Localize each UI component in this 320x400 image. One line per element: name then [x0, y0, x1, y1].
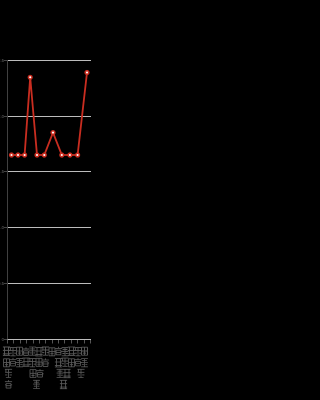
- marker point 4: [35, 153, 40, 158]
- marker point 2: [22, 153, 27, 158]
- marker point 10: [85, 70, 90, 75]
- y tick 1.5: [4, 171, 7, 173]
- marker point 3: [28, 75, 33, 80]
- svg-text:1.5: 1.5: [0, 169, 5, 174]
- x-axis ticks: [7, 340, 9, 344]
- gridline y5: [8, 283, 91, 285]
- gridline y3: [8, 171, 91, 173]
- marker point 5: [42, 153, 47, 158]
- marker point 8: [68, 153, 73, 158]
- marker point 0: [9, 153, 14, 158]
- svg-text:1.0: 1.0: [0, 225, 5, 230]
- marker point 7: [60, 153, 65, 158]
- marker point 6: [51, 130, 56, 135]
- marker point 1: [16, 153, 21, 158]
- gridline y4: [8, 227, 91, 229]
- red data line: [12, 73, 88, 156]
- y tick 2.0: [4, 116, 7, 118]
- svg-text:2.5: 2.5: [0, 58, 5, 63]
- y tick 0: [4, 339, 7, 341]
- y-axis line: [7, 60, 9, 340]
- y tick 2.5: [4, 60, 7, 62]
- x-axis category labels (vertical CJK, drawn): [3, 347, 88, 389]
- marker point 9: [75, 153, 80, 158]
- svg-text:2.0: 2.0: [0, 114, 5, 119]
- y tick 0.5: [4, 283, 7, 285]
- y tick 1.0: [4, 227, 7, 229]
- gridline y1: [8, 60, 91, 62]
- gridline y2: [8, 116, 91, 118]
- x-axis line: [7, 339, 91, 341]
- svg-text:0.5: 0.5: [0, 281, 5, 286]
